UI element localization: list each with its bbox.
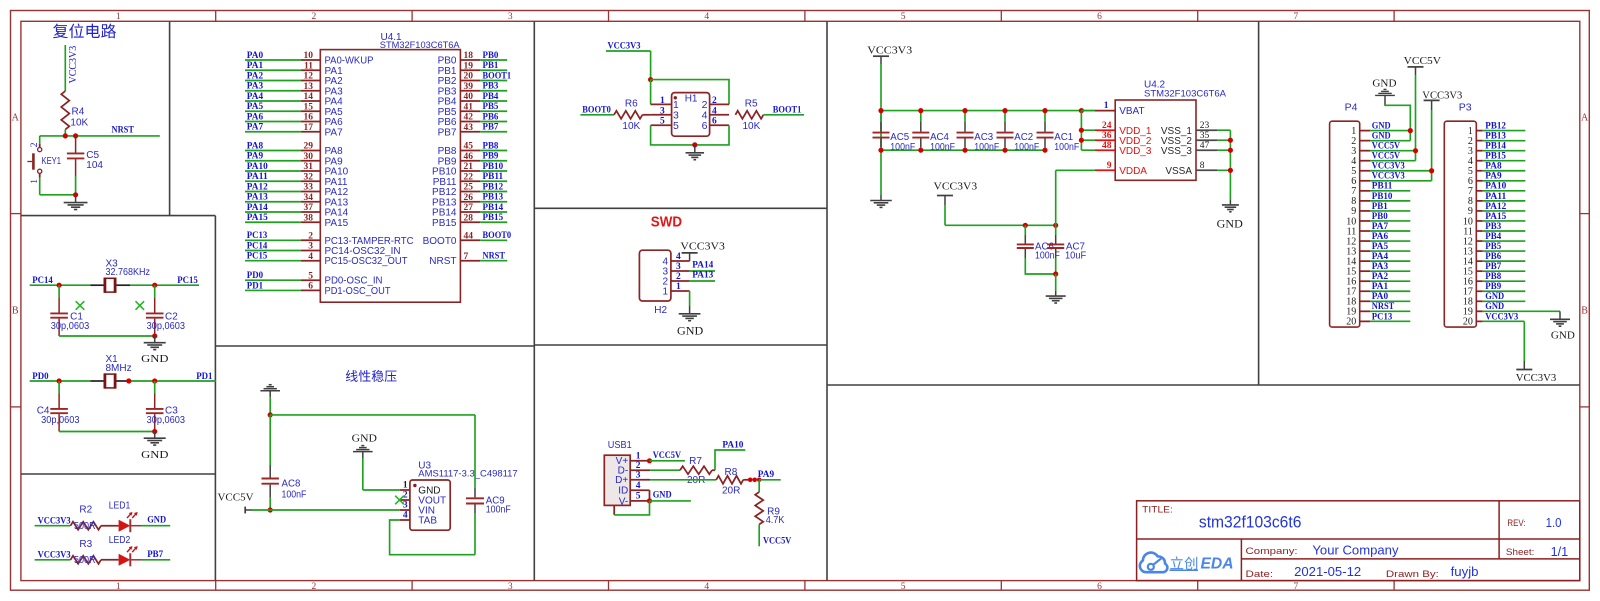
wire R3 to LED2	[101, 559, 119, 561]
svg-text:PB5: PB5	[483, 102, 499, 112]
svg-text:20R: 20R	[687, 475, 705, 486]
wire NRST node to KEY1	[39, 136, 41, 144]
net label GND	[650, 491, 691, 501]
svg-text:3: 3	[308, 242, 313, 252]
capacitor AC2	[997, 111, 1040, 153]
svg-text:34: 34	[304, 193, 314, 203]
svg-text:A: A	[12, 113, 20, 124]
pin 38 PA15 (U4.1 left)	[245, 213, 349, 229]
svg-text:PB10: PB10	[1372, 192, 1393, 202]
svg-text:Date:: Date:	[1246, 569, 1274, 580]
svg-text:R6: R6	[625, 99, 638, 110]
svg-text:PA11: PA11	[247, 172, 268, 182]
pin 41 PB5 (U4.1 right)	[438, 102, 508, 118]
svg-text:PA7: PA7	[325, 127, 344, 138]
svg-text:VSSA: VSSA	[1165, 166, 1192, 177]
svg-text:1.0: 1.0	[1546, 516, 1562, 530]
capacitor C5	[67, 136, 104, 195]
pin 37 PA14 (U4.1 left)	[245, 203, 349, 219]
svg-text:R3: R3	[79, 539, 92, 550]
wire D- to R7	[650, 469, 680, 471]
pin 17 PA7 (U4.1 left)	[245, 123, 343, 139]
sheet	[1506, 545, 1568, 559]
svg-text:45: 45	[464, 142, 474, 152]
svg-text:PA6: PA6	[247, 112, 264, 122]
svg-text:47: 47	[1200, 141, 1210, 151]
pin 7 NRST (U4.1 right)	[429, 252, 507, 268]
junction AC7 bottom	[1053, 271, 1058, 276]
wire P4 pin 11 PA7	[1370, 222, 1410, 232]
svg-text:25: 25	[464, 183, 474, 193]
svg-text:28: 28	[464, 213, 474, 223]
ground	[141, 336, 168, 365]
svg-text:20: 20	[1463, 317, 1473, 328]
svg-text:6: 6	[702, 120, 708, 132]
ground GND	[352, 432, 377, 458]
svg-text:VCC3V3: VCC3V3	[1372, 172, 1405, 182]
svg-text:3: 3	[508, 12, 513, 22]
svg-text:PA13: PA13	[692, 271, 713, 281]
svg-text:PA15: PA15	[325, 218, 349, 229]
capacitor AC8	[262, 415, 307, 510]
svg-text:3: 3	[403, 501, 408, 511]
svg-text:STM32F103C6T6A: STM32F103C6T6A	[1144, 89, 1227, 99]
svg-text:PC14: PC14	[247, 241, 268, 251]
svg-text:9: 9	[1107, 161, 1112, 171]
junction VDD_2	[1079, 138, 1084, 143]
wire P4 pin 3 VCC5V	[1370, 142, 1415, 152]
resistor R5	[735, 99, 804, 133]
capacitor C4	[37, 381, 80, 432]
capacitor AC1	[1037, 111, 1080, 153]
svg-text:7: 7	[1294, 12, 1299, 22]
wire P3 pin 18 GND	[1483, 292, 1526, 302]
junction	[268, 507, 273, 512]
svg-text:PA15: PA15	[1485, 212, 1506, 222]
svg-text:BOOT1: BOOT1	[483, 71, 512, 81]
svg-text:100nF: 100nF	[282, 489, 307, 500]
svg-text:100nF: 100nF	[1014, 142, 1039, 153]
svg-text:NRST: NRST	[483, 252, 506, 262]
LED LED2	[109, 535, 142, 567]
pin 45 PB8 (U4.1 right)	[438, 141, 508, 157]
svg-text:TITLE:: TITLE:	[1142, 505, 1173, 516]
svg-text:STM32F103C6T6A: STM32F103C6T6A	[380, 40, 461, 50]
svg-text:PB4: PB4	[483, 92, 499, 102]
svg-text:VCC5V: VCC5V	[1372, 142, 1400, 152]
pin 13 PA3 (U4.1 left)	[245, 82, 343, 98]
svg-text:PA7: PA7	[1372, 222, 1389, 232]
wire P4 pin 20 PC13	[1370, 312, 1410, 322]
svg-text:4: 4	[712, 106, 717, 116]
svg-text:PB5: PB5	[1485, 242, 1501, 252]
svg-text:GND: GND	[1372, 77, 1396, 89]
svg-text:GND: GND	[1485, 292, 1504, 302]
svg-text:VCC3V3: VCC3V3	[68, 46, 79, 84]
LED LED1	[109, 501, 142, 533]
junction X3 left	[57, 283, 62, 288]
svg-text:BOOT0: BOOT0	[423, 236, 457, 247]
svg-text:2: 2	[308, 231, 313, 241]
svg-text:2021-05-12: 2021-05-12	[1294, 565, 1361, 579]
power VCC3V3 (P3 pin20)	[1516, 321, 1557, 383]
svg-text:44: 44	[464, 231, 474, 241]
svg-text:1: 1	[662, 287, 668, 298]
wire P3 pin 14 PB6	[1483, 252, 1526, 262]
svg-text:PB1: PB1	[1372, 202, 1388, 212]
svg-text:PB7: PB7	[438, 127, 457, 138]
junction at R4	[63, 133, 68, 138]
wire VDD top bus	[881, 110, 1095, 112]
resistor R4	[61, 91, 88, 130]
svg-text:10K: 10K	[70, 117, 88, 128]
ground	[870, 195, 892, 208]
svg-text:P4: P4	[1345, 102, 1358, 114]
resistor R7	[680, 456, 715, 486]
junction VDD_1	[1079, 128, 1084, 133]
pin 31 PA10 (U4.1 left)	[245, 162, 349, 178]
svg-text:30: 30	[304, 152, 314, 162]
svg-text:PB4: PB4	[1485, 232, 1501, 242]
wire H1 bottom rail	[651, 125, 729, 145]
svg-text:29: 29	[304, 142, 314, 152]
svg-text:PB3: PB3	[1485, 222, 1501, 232]
svg-text:Company:: Company:	[1246, 546, 1298, 557]
wire VCC3V3 to R4	[64, 45, 66, 91]
junction X1 right	[152, 378, 157, 383]
svg-text:30p,0603: 30p,0603	[41, 415, 80, 426]
wire P3 pin 19 GND	[1483, 302, 1560, 312]
svg-text:VCC5V: VCC5V	[1372, 152, 1400, 162]
ground	[677, 306, 703, 338]
ground GND (P3)	[1550, 311, 1575, 341]
svg-text:VCC3V3: VCC3V3	[608, 42, 641, 52]
wire LED1 to GND label	[142, 516, 171, 526]
svg-text:V-: V-	[619, 496, 628, 507]
svg-text:VBAT: VBAT	[1119, 106, 1144, 117]
capacitor AC4	[912, 111, 955, 153]
wire P3 pin 10 PA15	[1483, 212, 1526, 222]
wire VCC5V to VIN	[252, 509, 400, 511]
pin 27 PB14 (U4.1 right)	[432, 203, 507, 219]
svg-text:VCC3V3: VCC3V3	[934, 180, 978, 192]
svg-text:100nF: 100nF	[974, 142, 999, 153]
svg-text:PA4: PA4	[1372, 252, 1389, 262]
svg-text:GND: GND	[352, 432, 377, 444]
wire P3 pin 20 VCC3V3	[1483, 312, 1525, 322]
wire P3 pin 5 PA8	[1483, 162, 1526, 172]
svg-text:5: 5	[660, 117, 665, 127]
junction X1 left	[57, 378, 62, 383]
svg-text:PC13: PC13	[247, 231, 268, 241]
svg-text:B: B	[12, 306, 19, 317]
pin 19 PB1 (U4.1 right)	[438, 61, 508, 77]
svg-text:PB10: PB10	[483, 162, 504, 172]
ground	[141, 432, 168, 461]
svg-text:7: 7	[464, 252, 469, 262]
pin 40 PB4 (U4.1 right)	[438, 92, 508, 108]
ground	[64, 195, 88, 210]
svg-text:PB0: PB0	[1372, 212, 1388, 222]
pin 44 BOOT0 (U4.1 right)	[423, 231, 512, 247]
svg-text:36: 36	[1102, 131, 1112, 141]
wire P3 pin 9 PA12	[1483, 202, 1526, 212]
svg-text:1: 1	[116, 12, 121, 22]
svg-text:500R: 500R	[74, 521, 96, 532]
svg-text:PA14: PA14	[247, 203, 268, 213]
svg-text:PB0: PB0	[483, 51, 499, 61]
svg-text:PA10: PA10	[247, 162, 268, 172]
resistor R3	[71, 539, 102, 566]
svg-text:EDA: EDA	[1201, 556, 1234, 573]
connector P4	[1330, 102, 1371, 328]
svg-text:30p,0603: 30p,0603	[147, 415, 186, 426]
wire P4 pin 14 PA4	[1370, 252, 1410, 262]
date	[1246, 565, 1479, 580]
svg-text:fuyjb: fuyjb	[1451, 565, 1479, 579]
svg-text:1: 1	[1104, 101, 1109, 111]
wire P3 pin 3 PB14	[1483, 142, 1526, 152]
svg-text:R2: R2	[79, 505, 92, 516]
svg-text:PC13: PC13	[1372, 312, 1393, 322]
svg-text:20: 20	[1346, 317, 1356, 328]
svg-text:100nF: 100nF	[890, 142, 915, 153]
svg-text:5: 5	[673, 120, 679, 132]
wire P3 pin 16 PB8	[1483, 272, 1526, 282]
svg-text:PD1: PD1	[247, 281, 264, 291]
wire to ground	[1055, 274, 1057, 291]
svg-text:PA8: PA8	[1485, 162, 1502, 172]
title block frame	[1137, 501, 1580, 581]
svg-text:GND: GND	[1217, 218, 1243, 230]
svg-text:PA9: PA9	[247, 152, 264, 162]
svg-text:PA13: PA13	[247, 193, 268, 203]
wire P3 pin 17 PB9	[1483, 282, 1526, 292]
crystal X1	[90, 373, 130, 388]
junction pin5	[1429, 168, 1434, 173]
svg-text:6: 6	[1097, 582, 1102, 592]
rev	[1507, 516, 1561, 530]
wire PD0	[30, 372, 91, 382]
svg-text:1: 1	[30, 179, 40, 184]
svg-text:PB14: PB14	[483, 203, 504, 213]
svg-text:GND: GND	[141, 449, 168, 461]
wire top rail	[270, 414, 475, 416]
svg-text:PD1-OSC_OUT: PD1-OSC_OUT	[325, 286, 391, 297]
svg-text:33: 33	[304, 183, 314, 193]
svg-text:8MHz: 8MHz	[106, 363, 132, 374]
svg-text:43: 43	[464, 123, 474, 133]
wire H1 top rail	[651, 80, 729, 105]
pin 4 PC15 (U4.1 left)	[245, 252, 408, 268]
svg-text:R7: R7	[689, 456, 702, 467]
svg-text:PB14: PB14	[1485, 142, 1506, 152]
svg-text:stm32f103c6t6: stm32f103c6t6	[1199, 514, 1302, 532]
svg-text:VDDA: VDDA	[1119, 166, 1147, 177]
net label VCC3V3 (LED2)	[35, 551, 71, 561]
svg-text:1: 1	[660, 96, 665, 106]
wire R2 to LED1	[101, 525, 119, 527]
svg-text:H2: H2	[654, 305, 667, 316]
wire P4 pin 7 PB11	[1370, 182, 1410, 192]
net label VCC5V	[763, 536, 791, 546]
svg-text:AMS1117-3.3_C498117: AMS1117-3.3_C498117	[418, 469, 517, 479]
svg-text:2: 2	[30, 142, 40, 147]
ground (inverted)	[260, 385, 280, 398]
wire LED2 to PB7 label	[142, 550, 171, 560]
wire P3 pin 12 PB4	[1483, 232, 1526, 242]
wire P4 pin 12 PA6	[1370, 232, 1410, 242]
ground GND	[1217, 199, 1243, 230]
wire P3 pin 4 PB15	[1483, 152, 1526, 162]
capacitor AC7	[1047, 225, 1086, 274]
wire P4 pin 1 GND	[1370, 122, 1410, 132]
junction VSSA	[1228, 168, 1233, 173]
svg-text:PA15: PA15	[247, 213, 268, 223]
wire VBAT	[1081, 110, 1095, 112]
svg-text:PA14: PA14	[692, 260, 713, 270]
svg-text:PB13: PB13	[483, 193, 504, 203]
svg-text:LED1: LED1	[109, 501, 131, 512]
svg-text:GND: GND	[141, 353, 168, 365]
svg-text:LED2: LED2	[109, 535, 131, 546]
svg-text:BOOT0: BOOT0	[483, 231, 512, 241]
svg-text:14: 14	[304, 92, 314, 102]
wire GND to U3 pin1	[363, 458, 400, 490]
svg-text:VCC5V: VCC5V	[653, 451, 681, 461]
svg-text:VCC5V: VCC5V	[763, 536, 791, 546]
wire P4 pin 10 PB0	[1370, 212, 1410, 222]
svg-text:19: 19	[464, 61, 474, 71]
pin 6 PD1 (U4.1 left)	[245, 281, 391, 297]
wire ground bus bottom	[881, 149, 1045, 151]
svg-text:PA3: PA3	[1372, 262, 1389, 272]
svg-text:PB7: PB7	[483, 123, 499, 133]
svg-text:BOOT0: BOOT0	[582, 106, 611, 116]
svg-text:31: 31	[304, 162, 314, 172]
svg-text:PA12: PA12	[1485, 202, 1506, 212]
wire VDD vertical	[1081, 111, 1095, 151]
no-connect mark	[136, 301, 145, 310]
capacitor AC9	[466, 415, 511, 555]
wire P3 pin 1 PB12	[1483, 122, 1526, 132]
svg-text:5: 5	[901, 12, 906, 22]
svg-text:PB15: PB15	[1485, 152, 1506, 162]
svg-text:R4: R4	[72, 107, 85, 118]
header H1	[651, 93, 729, 137]
junctions bottom bus	[878, 148, 1047, 153]
pin 11 PA1 (U4.1 left)	[245, 61, 343, 77]
svg-text:PB12: PB12	[483, 182, 504, 192]
wire PA13	[690, 271, 715, 281]
junction VSS_3	[1228, 148, 1233, 153]
svg-text:VCC5V: VCC5V	[1404, 55, 1441, 67]
svg-text:2: 2	[676, 272, 681, 282]
junction at ground	[73, 192, 78, 197]
wire left vertical to ground	[880, 111, 882, 195]
svg-text:REV:: REV:	[1507, 518, 1525, 529]
svg-text:1: 1	[116, 582, 121, 592]
svg-text:6: 6	[308, 282, 313, 292]
wire VCC3V3 to AC6 AC7	[945, 205, 1056, 225]
svg-text:41: 41	[464, 102, 474, 112]
svg-text:VCC3V3: VCC3V3	[867, 45, 912, 57]
junction PA9 node	[748, 478, 762, 483]
net label VCC5V	[650, 451, 685, 461]
svg-text:VCC5V: VCC5V	[218, 492, 254, 504]
svg-text:PA7: PA7	[247, 123, 264, 133]
wire to H1 pin1	[650, 80, 652, 105]
svg-text:21: 21	[464, 162, 474, 172]
svg-text:H1: H1	[685, 94, 698, 105]
svg-text:6: 6	[1097, 12, 1102, 22]
junction at C5	[73, 133, 78, 138]
wire P4 pin 18 PA0	[1370, 292, 1410, 302]
svg-text:AC8: AC8	[282, 478, 301, 489]
svg-text:PA5: PA5	[1372, 242, 1389, 252]
section title 线性稳压	[346, 370, 397, 382]
svg-text:5: 5	[901, 582, 906, 592]
wire P4 pin 16 PA2	[1370, 272, 1410, 282]
wire VDDA vertical	[1056, 170, 1095, 225]
net label PA9	[758, 470, 781, 480]
pin 42 PB6 (U4.1 right)	[438, 112, 508, 128]
svg-text:26: 26	[464, 193, 474, 203]
svg-text:100nF: 100nF	[1054, 142, 1079, 153]
net label BOOT1	[773, 106, 802, 116]
wire P3 pin 8 PA11	[1483, 192, 1526, 202]
power VCC5V (P4)	[1404, 55, 1441, 75]
svg-text:Your Company: Your Company	[1312, 543, 1399, 557]
ground GND (P4)	[1372, 77, 1396, 104]
svg-text:GND: GND	[1551, 329, 1575, 341]
pin 25 PB12 (U4.1 right)	[432, 182, 507, 198]
wire VSS to ground	[1217, 130, 1230, 199]
svg-text:PB6: PB6	[1485, 252, 1501, 262]
pin 12 PA2 (U4.1 left)	[245, 71, 343, 87]
svg-text:VCC3V3: VCC3V3	[1485, 312, 1518, 322]
svg-text:PC15-OSC32_OUT: PC15-OSC32_OUT	[325, 256, 408, 267]
svg-text:PA9: PA9	[1485, 172, 1502, 182]
svg-text:1: 1	[676, 282, 681, 292]
junction	[152, 429, 157, 434]
svg-text:PB1: PB1	[483, 61, 499, 71]
svg-text:PB3: PB3	[483, 82, 499, 92]
svg-text:PB6: PB6	[483, 112, 499, 122]
svg-text:PA10: PA10	[1485, 182, 1506, 192]
ground	[1046, 291, 1066, 303]
svg-text:10uF: 10uF	[1065, 250, 1086, 261]
svg-text:GND: GND	[1485, 302, 1504, 312]
capacitor AC3	[957, 111, 1000, 153]
svg-text:11: 11	[304, 61, 313, 71]
svg-text:PC15: PC15	[247, 252, 268, 262]
svg-text:1: 1	[403, 481, 408, 491]
svg-text:NRST: NRST	[429, 256, 456, 267]
svg-text:PB15: PB15	[432, 218, 457, 229]
svg-text:NRST: NRST	[112, 125, 135, 135]
svg-text:104: 104	[86, 160, 103, 171]
wire PC14	[30, 276, 91, 286]
svg-text:PA2: PA2	[1372, 272, 1389, 282]
no-connect mark	[76, 301, 85, 310]
section title SWD	[651, 214, 682, 230]
capacitor C3	[146, 381, 185, 432]
wire R4 to NRST node	[64, 130, 66, 136]
net label BOOT0	[582, 106, 611, 116]
junction V-	[647, 498, 652, 503]
wire P4 pin 4 VCC5V	[1370, 152, 1415, 162]
